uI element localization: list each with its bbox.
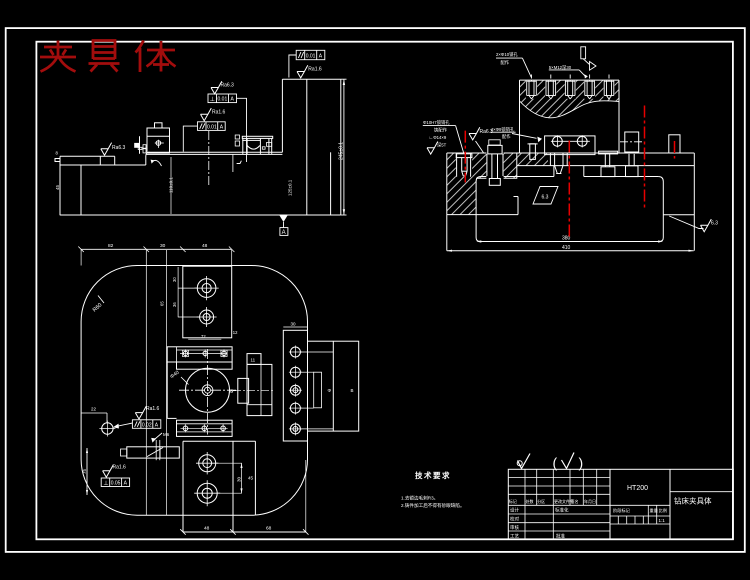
F2 leader bracket: [183, 126, 197, 152]
tower top edge: [282, 78, 340, 80]
title char ju: [93, 41, 115, 60]
long extension lines: [145, 250, 147, 515]
lower body top-left fillet: [476, 177, 481, 182]
side clamp assembly left of plate: [247, 354, 261, 365]
rounded square outline: [81, 266, 307, 516]
top plate seam: [99, 156, 101, 165]
top plate right step: [114, 156, 116, 165]
left table vertical lines: [524, 469, 526, 539]
right outer rectangle: [308, 341, 359, 431]
F1 leader: [237, 98, 247, 162]
middle block right inner vertical: [330, 152, 332, 215]
svg-text:30: 30: [160, 243, 166, 249]
bottom dimension line: [183, 531, 306, 533]
top rect circle 2: [200, 310, 214, 324]
dim 380 on lower body bottom: [476, 240, 481, 242]
dim 410 on base bottom: [447, 250, 452, 252]
left L outline: [476, 153, 517, 178]
inner drawing border: [36, 42, 733, 540]
svg-text:HT200: HT200: [627, 485, 648, 492]
left bracket of bearing box: [139, 136, 141, 154]
top block wavy break line: [520, 101, 620, 118]
centerline small block: [674, 141, 676, 159]
svg-text:铸配作: 铸配作: [434, 127, 448, 134]
clamp block with two bolt circles: [545, 136, 595, 155]
small mark below clamp: [237, 161, 242, 164]
bearing box crosshair: [155, 142, 164, 144]
right connecting piece: [268, 138, 270, 154]
left vertical dim: [86, 448, 88, 495]
top rect circle 1: [197, 279, 216, 298]
middle height dimension: [170, 157, 172, 214]
body right wall: [693, 153, 695, 251]
svg-text:110±0.1: 110±0.1: [169, 177, 174, 193]
svg-text:6.3: 6.3: [542, 195, 549, 201]
svg-text:工艺: 工艺: [510, 533, 519, 538]
svg-text:65: 65: [160, 301, 165, 306]
F5 roughness: [103, 465, 114, 478]
tiny label boxes left of clamp: [235, 135, 239, 139]
svg-text:1:1: 1:1: [659, 518, 666, 523]
top block right edge: [618, 80, 620, 153]
svg-text:处数: 处数: [526, 498, 534, 504]
svg-text:配作: 配作: [501, 59, 510, 66]
top dimension line: [81, 248, 232, 250]
svg-text:B: B: [351, 388, 354, 393]
bolt B2: [486, 145, 503, 186]
lower body left edge: [475, 182, 477, 238]
svg-text:30: 30: [172, 277, 177, 282]
svg-text:1.去锁边毛刺R3。: 1.去锁边毛刺R3。: [401, 495, 438, 502]
bottom rect circle 2: [197, 483, 217, 503]
svg-text:技术要求: 技术要求: [415, 470, 451, 480]
bar above big circle: [167, 347, 232, 362]
svg-text:设计: 设计: [510, 507, 519, 514]
Φ40 label: [181, 377, 189, 385]
bolt head below block: [626, 166, 639, 177]
svg-text:0.01: 0.01: [306, 53, 316, 59]
red drawing title 夹具体: [40, 41, 176, 73]
svg-text:82: 82: [108, 243, 114, 249]
bolt B1 hole: [456, 153, 472, 177]
F3 leader: [289, 55, 296, 78]
svg-text:审核: 审核: [510, 524, 519, 531]
bearing box body: [147, 128, 170, 153]
tolerance frame F2: [198, 122, 226, 131]
base plate bottom edge: [517, 165, 695, 167]
title block outer frame: [508, 469, 733, 539]
svg-text:0.01: 0.01: [218, 97, 228, 103]
baseline of front view body: [60, 214, 341, 216]
svg-text:A: A: [282, 230, 286, 236]
svg-text:Φ10H7锁销孔: Φ10H7锁销孔: [423, 119, 450, 126]
bearing box divider: [147, 135, 170, 137]
tower right edge: [340, 79, 342, 215]
svg-text:Ra6.3: Ra6.3: [221, 83, 235, 89]
svg-text:标准化: 标准化: [555, 507, 569, 514]
tolerance frame F4: [132, 420, 160, 429]
right plate with 5 holes: [283, 330, 307, 441]
svg-text:11: 11: [251, 358, 256, 363]
small block right of bushing: [262, 147, 265, 149]
left block inner vertical: [80, 165, 82, 215]
svg-text:30: 30: [236, 476, 241, 482]
right height dimension line: [343, 79, 345, 215]
left locating pin: [102, 423, 113, 434]
five template bolts: [526, 75, 615, 100]
svg-text:0.05: 0.05: [111, 481, 121, 487]
svg-text:重量: 重量: [650, 507, 658, 514]
svg-text:0.01: 0.01: [207, 124, 217, 130]
svg-text:2×Φ10锁孔: 2×Φ10锁孔: [496, 51, 518, 58]
roughness at plate left: [427, 142, 438, 155]
center boss walls: [553, 166, 555, 177]
svg-text:钻床夹具体: 钻床夹具体: [674, 496, 712, 506]
bearing box top tab: [155, 123, 163, 128]
svg-text:年月日: 年月日: [584, 498, 596, 504]
middle zone lines: [610, 504, 670, 506]
left hatched L-region fill: [447, 153, 517, 215]
small vertical dim right of circles: [216, 462, 242, 464]
top block left edge: [519, 80, 521, 153]
bushing side walls: [242, 138, 244, 154]
left tab protrusion: [55, 159, 60, 162]
right roughness with leader: [701, 219, 712, 232]
svg-text:22: 22: [91, 407, 97, 412]
svg-text:125±0.1: 125±0.1: [288, 179, 293, 196]
clamp top plate: [242, 136, 272, 138]
leader arrow at step: [153, 160, 162, 166]
svg-text:Ra1.6: Ra1.6: [212, 110, 226, 116]
top drill-template block hatch: [520, 80, 620, 118]
block on plate with centerline: [625, 132, 639, 152]
step up to middle block: [146, 152, 150, 165]
svg-text:45: 45: [248, 476, 254, 481]
plate width dim: [283, 326, 307, 328]
svg-text:(: (: [553, 455, 558, 471]
svg-text:∟Φ14×9: ∟Φ14×9: [429, 135, 447, 140]
tolerance frame F5: [101, 478, 129, 487]
svg-text:48: 48: [202, 243, 208, 249]
label box above bolt B2: [489, 140, 500, 145]
svg-text:68: 68: [266, 526, 272, 532]
middle block hidden vertical: [232, 154, 234, 172]
section flag: [581, 47, 586, 59]
svg-text:⊥: ⊥: [103, 480, 108, 487]
centerline right hole: [644, 106, 646, 208]
bar below big circle: [177, 420, 233, 436]
left table horizontal lines: [508, 477, 610, 479]
bearing box circle: [156, 141, 161, 146]
T-stud below plate: [604, 154, 606, 167]
svg-text:B: B: [230, 389, 233, 394]
svg-text:): ): [579, 455, 584, 471]
lower body bottom edge: [476, 238, 663, 242]
middle block top edge line 2: [146, 153, 282, 155]
inner vertical dim line in top rect: [177, 267, 179, 317]
svg-text:批准: 批准: [556, 532, 565, 539]
svg-text:Ra1.6: Ra1.6: [113, 465, 127, 471]
svg-text:校对: 校对: [510, 516, 519, 523]
left block left edge: [59, 156, 61, 215]
bar1 top dim: [188, 338, 221, 340]
svg-text:标记: 标记: [509, 498, 517, 504]
locating pin under clamp: [530, 144, 536, 160]
svg-text:12: 12: [233, 330, 238, 335]
clamp leader arrow: [154, 433, 163, 440]
middle-left clamp piece: [127, 447, 180, 458]
svg-text:深5T: 深5T: [437, 142, 447, 149]
bushing concave arc: [247, 146, 260, 150]
drill bushing funnel: [549, 153, 551, 166]
pocket left wall: [166, 362, 168, 418]
base plate top edge: [447, 152, 695, 154]
svg-text:⊥: ⊥: [210, 96, 215, 103]
F4 roughness: [135, 406, 146, 419]
svg-text:阶段标记: 阶段标记: [613, 507, 631, 514]
svg-text:72: 72: [201, 334, 206, 339]
body left edge full: [446, 153, 448, 251]
svg-text:36: 36: [172, 302, 177, 307]
svg-text:签名: 签名: [571, 498, 579, 504]
lower body top edge right segment: [584, 176, 658, 178]
left block top surface: [60, 164, 146, 166]
title char ti: [136, 41, 144, 53]
svg-text:30: 30: [291, 322, 297, 327]
lower body top-right fillet: [658, 177, 663, 182]
svg-text:Ra6.3: Ra6.3: [112, 145, 126, 151]
svg-text:Φ: Φ: [328, 388, 332, 393]
top block top edge: [520, 79, 620, 81]
svg-text:Ra1.6: Ra1.6: [146, 406, 160, 412]
centerline bolt B1: [464, 131, 466, 183]
middle centerline: [208, 131, 210, 187]
main vertical dividers: [609, 469, 611, 539]
small check mark: [518, 454, 531, 469]
tower inner vertical: [306, 79, 308, 215]
thin washer plate right of clamp: [599, 151, 618, 154]
hatch column bottom shelf: [447, 214, 518, 216]
row lines to right rect: [300, 351, 333, 353]
roughness mid with leader: [469, 127, 480, 140]
lower body top edge left segment: [481, 176, 554, 178]
svg-text:配作: 配作: [502, 133, 511, 140]
right step: [663, 214, 694, 216]
svg-text:比例: 比例: [659, 507, 667, 514]
big central circle: [186, 368, 230, 412]
svg-text:6.3: 6.3: [711, 221, 718, 227]
band hatch right of L: [517, 153, 548, 166]
tolerance frame F1: [208, 94, 237, 103]
svg-text:75: 75: [82, 468, 87, 474]
tolerance frame F3 (above tower): [296, 50, 325, 59]
svg-text:45: 45: [55, 184, 60, 190]
svg-text:M6: M6: [163, 432, 170, 437]
svg-text:245±0.1: 245±0.1: [338, 142, 344, 160]
slanted roughness parallelogram: [533, 187, 558, 205]
left plate roughness symbol: [101, 143, 112, 156]
datum A flag: [280, 216, 288, 223]
middle block top edge line 1: [148, 151, 282, 153]
svg-text:分区: 分区: [537, 498, 545, 504]
svg-text:Ra1.6: Ra1.6: [308, 67, 322, 73]
title char jia: [57, 41, 60, 57]
centerline bushing: [568, 141, 570, 239]
bottom rect circle 1: [199, 455, 216, 472]
tower roughness symbol: [297, 65, 308, 78]
tower left edge: [281, 79, 283, 152]
svg-text:48: 48: [204, 526, 210, 532]
lower body right edge: [662, 182, 664, 238]
thin inner rect: [314, 372, 322, 408]
svg-text:2.铸件加工后不得有砂眼缺陷。: 2.铸件加工后不得有砂眼缺陷。: [401, 502, 465, 509]
bottom-middle rectangle: [183, 440, 255, 442]
red centerlines: [465, 106, 674, 239]
F2 roughness symbol: [201, 108, 212, 121]
svg-text:410: 410: [562, 245, 571, 251]
small block on plate right: [669, 135, 680, 153]
top-middle rectangle: [183, 266, 232, 338]
right zone divider: [670, 491, 733, 493]
body base bottom: [447, 250, 694, 252]
top plate top edge: [60, 155, 115, 157]
svg-text:0.02: 0.02: [142, 422, 152, 428]
F1 roughness symbol: [211, 81, 222, 94]
F4 leader arrow: [116, 423, 133, 427]
